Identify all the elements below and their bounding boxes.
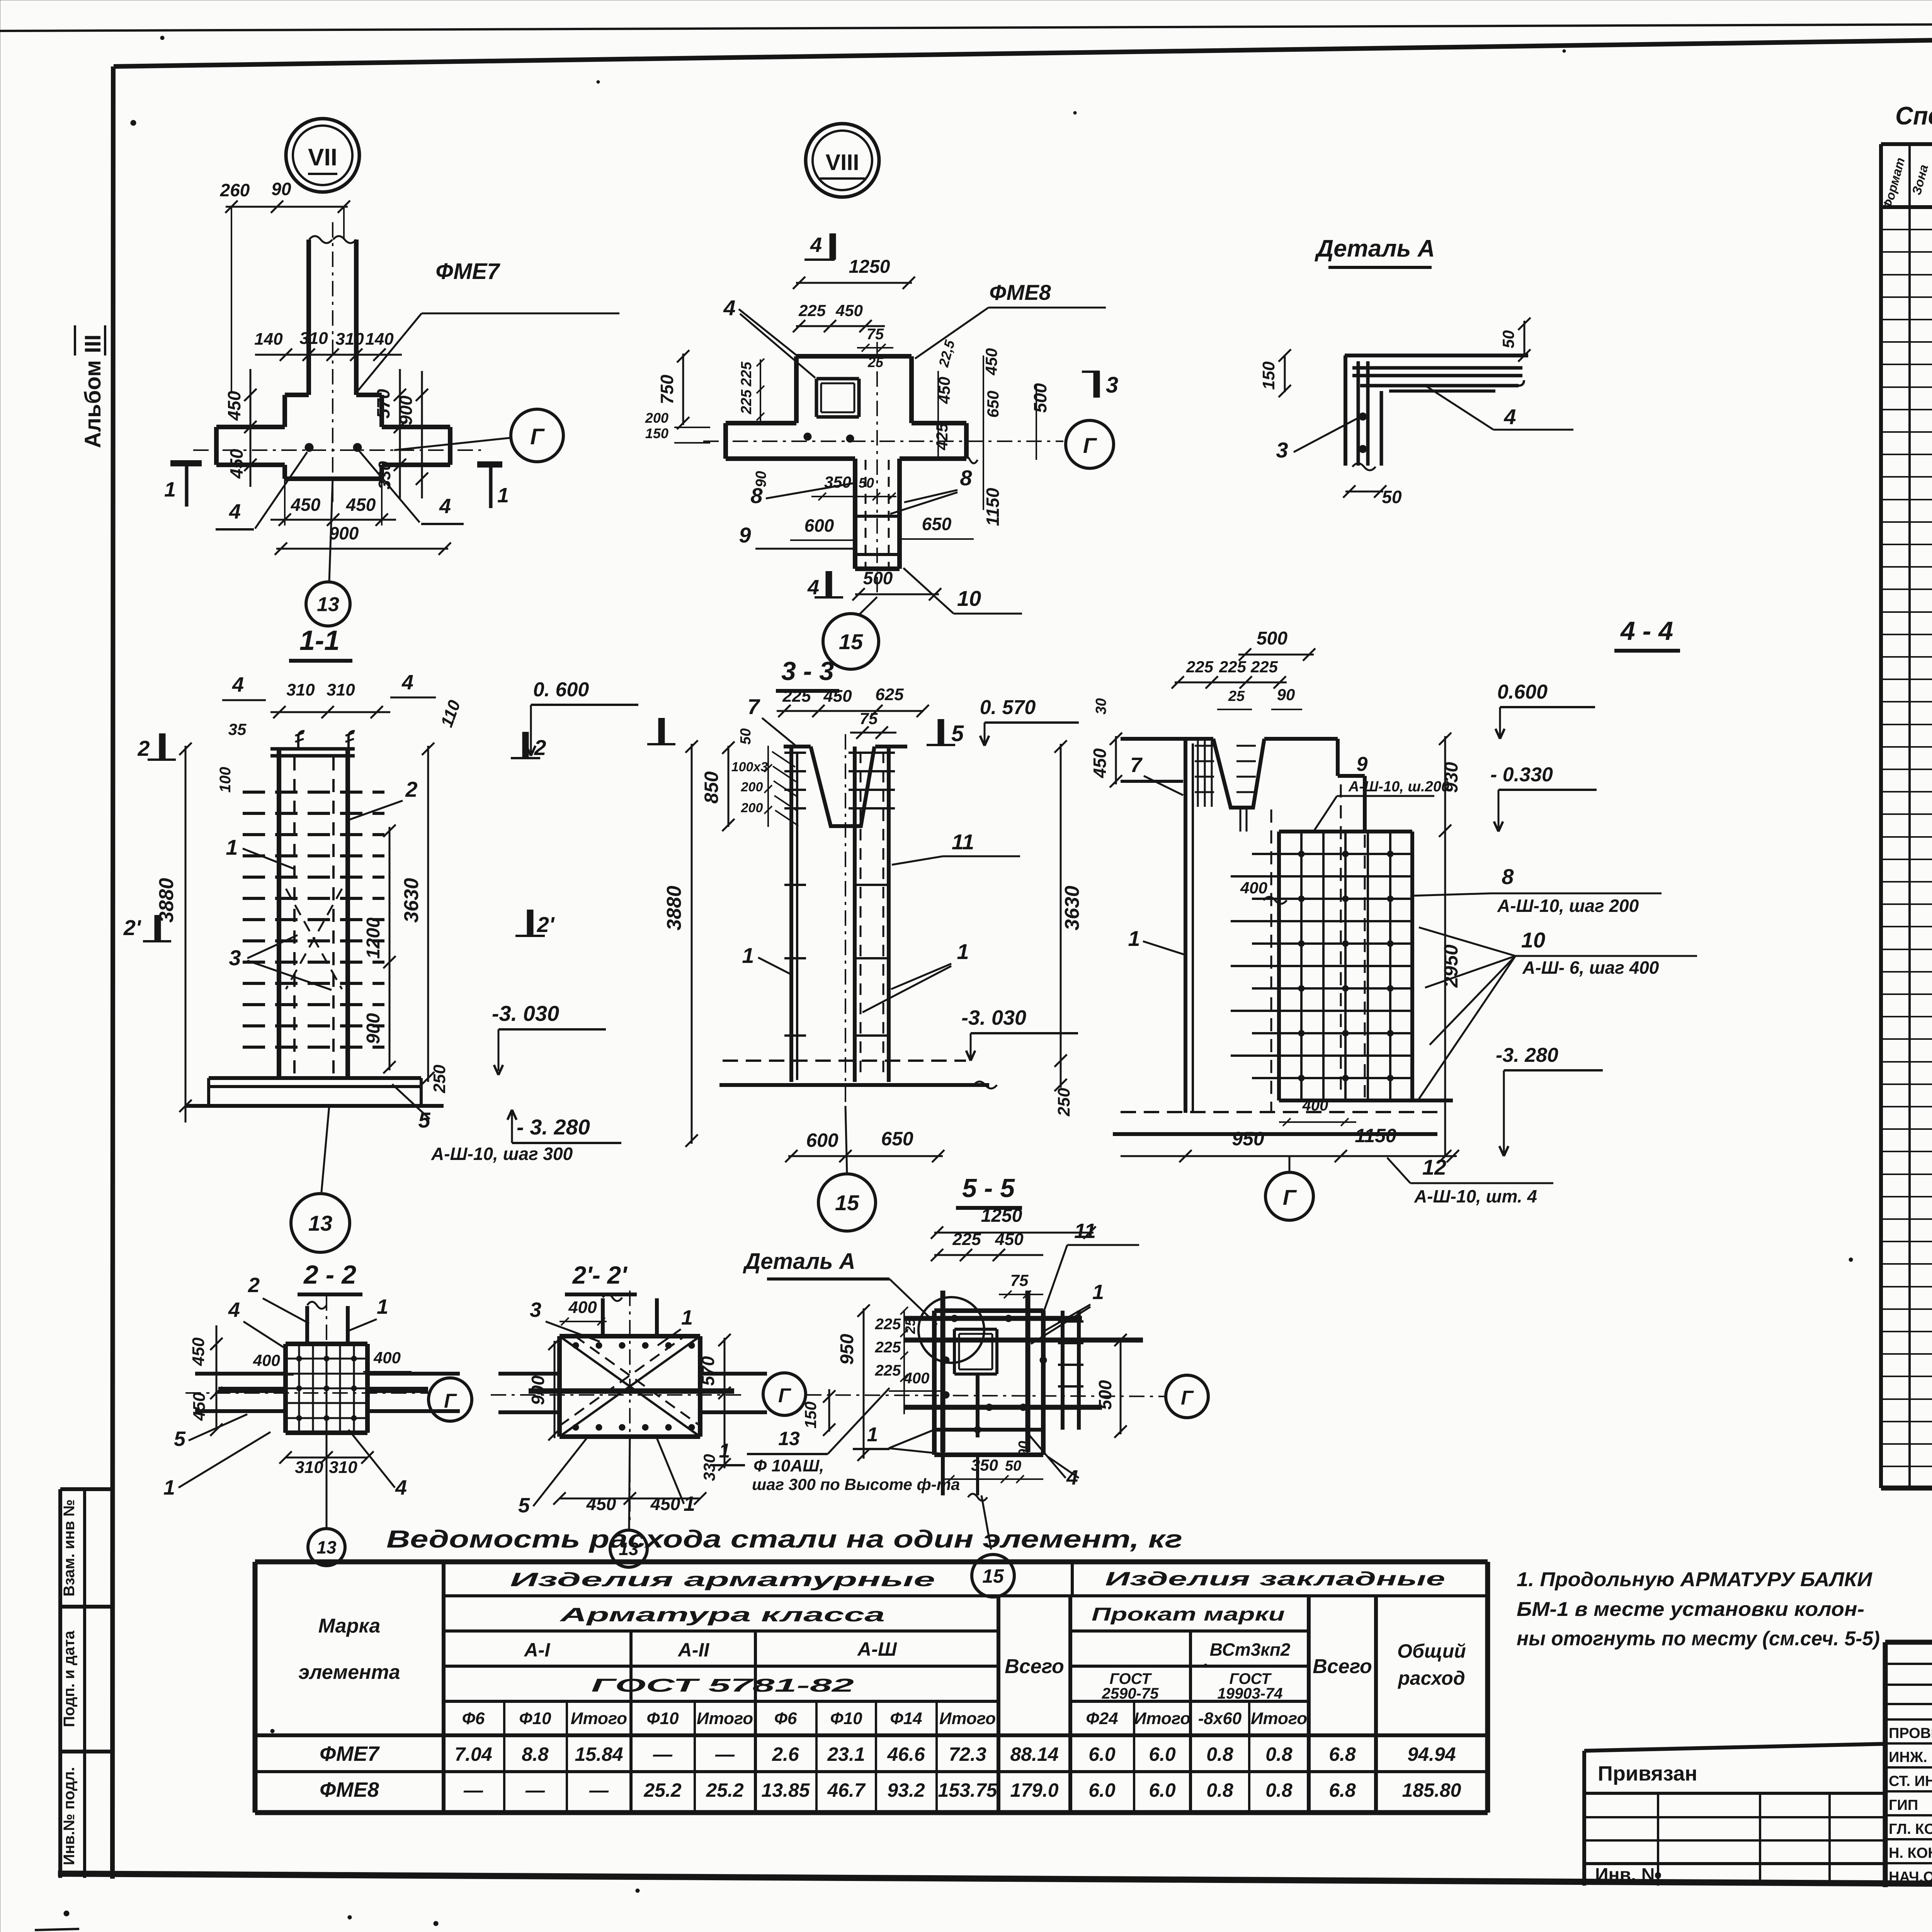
svg-text:1250: 1250 [981, 1206, 1022, 1226]
svg-text:75: 75 [867, 326, 884, 343]
svg-text:400: 400 [1302, 1097, 1328, 1114]
svg-text:0.8: 0.8 [1265, 1779, 1293, 1801]
svg-text:0.8: 0.8 [1206, 1743, 1233, 1765]
svg-text:4: 4 [807, 576, 819, 599]
svg-text:Всего: Всего [1313, 1655, 1372, 1678]
svg-text:2: 2 [137, 736, 150, 760]
svg-text:1-1: 1-1 [299, 625, 340, 656]
svg-text:А-Ш-10, шаг 300: А-Ш-10, шаг 300 [431, 1144, 573, 1164]
svg-text:Общий: Общий [1397, 1640, 1466, 1662]
svg-text:Ф10: Ф10 [519, 1709, 551, 1728]
svg-text:140: 140 [254, 330, 283, 349]
svg-text:—: — [525, 1779, 545, 1801]
svg-text:150: 150 [1259, 361, 1278, 390]
svg-text:1: 1 [226, 835, 238, 859]
svg-text:450: 450 [586, 1494, 616, 1514]
svg-text:ВСт3кп2: ВСт3кп2 [1210, 1639, 1291, 1660]
svg-text:1: 1 [1092, 1281, 1104, 1304]
svg-text:1250: 1250 [849, 257, 890, 277]
svg-text:6.0: 6.0 [1149, 1743, 1176, 1765]
svg-text:25: 25 [867, 354, 884, 370]
svg-text:Итого: Итого [571, 1709, 627, 1728]
svg-text:Спецификация монолитных фун: Спецификация монолитных фундаментов ФМЕ7… [1895, 101, 1932, 130]
svg-text:-3. 030: -3. 030 [961, 1006, 1026, 1029]
svg-text:15: 15 [982, 1565, 1004, 1587]
svg-text:1150: 1150 [1355, 1125, 1396, 1146]
svg-text:7: 7 [1130, 753, 1143, 777]
svg-text:- 3. 280: - 3. 280 [517, 1115, 590, 1139]
svg-text:150: 150 [645, 425, 668, 441]
svg-text:3630: 3630 [1061, 886, 1083, 930]
svg-text:450: 450 [650, 1494, 680, 1514]
svg-text:260: 260 [220, 180, 250, 200]
svg-text:2590-75: 2590-75 [1102, 1685, 1159, 1702]
svg-text:2.6: 2.6 [772, 1743, 799, 1765]
svg-text:ГОСТ 5781-82: ГОСТ 5781-82 [591, 1675, 854, 1696]
svg-text:8: 8 [750, 483, 763, 508]
svg-text:650: 650 [881, 1128, 913, 1150]
svg-text:570: 570 [698, 1356, 718, 1386]
svg-text:1: 1 [497, 484, 509, 507]
svg-text:500: 500 [863, 568, 893, 588]
svg-text:950: 950 [1232, 1128, 1264, 1150]
svg-text:250: 250 [430, 1065, 449, 1094]
svg-text:5 - 5: 5 - 5 [962, 1173, 1015, 1203]
svg-text:6.0: 6.0 [1149, 1779, 1176, 1801]
svg-text:950: 950 [837, 1334, 857, 1365]
svg-text:30: 30 [1093, 698, 1109, 714]
svg-text:13: 13 [308, 1211, 332, 1235]
svg-text:400: 400 [568, 1298, 597, 1317]
svg-text:Подп. и дата: Подп. и дата [61, 1630, 78, 1727]
svg-text:25: 25 [1228, 688, 1245, 704]
svg-text:650: 650 [922, 514, 952, 534]
svg-text:6.0: 6.0 [1088, 1779, 1116, 1801]
svg-text:88.14: 88.14 [1010, 1743, 1058, 1765]
svg-text:ИНЖ.: ИНЖ. [1889, 1749, 1927, 1765]
svg-text:450: 450 [982, 348, 1000, 376]
svg-text:4: 4 [1503, 405, 1516, 429]
svg-text:4 - 4: 4 - 4 [1620, 616, 1673, 646]
svg-text:90: 90 [271, 179, 291, 199]
svg-text:Итого: Итого [1134, 1709, 1190, 1728]
svg-text:650: 650 [984, 391, 1002, 418]
svg-text:0. 570: 0. 570 [980, 696, 1036, 719]
svg-text:А-Ш-10, шт. 4: А-Ш-10, шт. 4 [1414, 1186, 1537, 1206]
svg-text:225: 225 [875, 1316, 901, 1333]
svg-text:50: 50 [1499, 330, 1517, 349]
svg-text:Н. КОНТР.: Н. КОНТР. [1889, 1845, 1932, 1861]
svg-text:625: 625 [875, 685, 904, 704]
svg-text:450: 450 [995, 1230, 1024, 1249]
svg-text:1: 1 [684, 1492, 695, 1515]
svg-text:СТ. ИНЖ.: СТ. ИНЖ. [1889, 1773, 1932, 1789]
svg-text:1200: 1200 [363, 917, 384, 959]
svg-text:8: 8 [960, 466, 972, 490]
svg-text:Ф14: Ф14 [890, 1709, 922, 1728]
svg-text:Ф 10АШ,: Ф 10АШ, [753, 1456, 824, 1475]
svg-text:425: 425 [933, 423, 951, 451]
svg-text:-8х60: -8х60 [1198, 1709, 1242, 1728]
svg-text:179.0: 179.0 [1010, 1779, 1058, 1801]
svg-text:5: 5 [174, 1427, 186, 1451]
svg-text:225: 225 [738, 389, 755, 414]
svg-text:9: 9 [739, 523, 751, 547]
svg-text:9: 9 [1357, 753, 1368, 776]
svg-text:4: 4 [723, 296, 735, 320]
svg-text:-3. 280: -3. 280 [1496, 1044, 1558, 1066]
svg-text:А-II: А-II [677, 1639, 710, 1661]
svg-text:2: 2 [248, 1274, 260, 1297]
svg-text:3: 3 [1106, 372, 1118, 398]
svg-text:200: 200 [741, 780, 763, 794]
svg-text:1: 1 [957, 939, 969, 964]
svg-text:310: 310 [335, 330, 364, 349]
svg-text:0. 600: 0. 600 [533, 679, 589, 701]
svg-text:310: 310 [299, 329, 328, 348]
svg-text:-3. 030: -3. 030 [492, 1001, 559, 1026]
svg-text:ны отогнуть по месту (см.се: ны отогнуть по месту (см.сеч. 5-5) [1517, 1628, 1880, 1650]
svg-text:6.8: 6.8 [1329, 1743, 1356, 1765]
svg-text:12: 12 [1422, 1155, 1446, 1179]
svg-text:VII: VII [308, 144, 337, 171]
svg-text:225: 225 [1250, 658, 1278, 676]
svg-text:Ведомость расхода стали на: Ведомость расхода стали на один элемент,… [386, 1525, 1182, 1553]
svg-text:350: 350 [971, 1456, 998, 1474]
svg-text:1150: 1150 [983, 488, 1003, 526]
svg-text:Ф24: Ф24 [1086, 1709, 1118, 1728]
svg-text:Итого: Итого [697, 1709, 753, 1728]
svg-text:7: 7 [747, 694, 760, 719]
svg-text:3880: 3880 [663, 886, 685, 930]
svg-text:900: 900 [329, 523, 359, 543]
svg-text:2'- 2': 2'- 2' [572, 1261, 628, 1289]
svg-text:570: 570 [373, 389, 393, 418]
svg-text:25.2: 25.2 [706, 1779, 744, 1801]
svg-text:2: 2 [405, 777, 417, 801]
svg-text:Привязан: Привязан [1598, 1762, 1697, 1785]
svg-text:III: III [80, 335, 105, 353]
svg-text:450: 450 [190, 1392, 209, 1421]
svg-text:А-I: А-I [524, 1639, 551, 1661]
svg-text:Деталь А: Деталь А [1314, 235, 1435, 262]
svg-text:330: 330 [700, 1454, 718, 1481]
svg-text:310: 310 [295, 1458, 323, 1477]
svg-text:50: 50 [1382, 487, 1402, 507]
svg-text:400: 400 [373, 1349, 401, 1367]
svg-text:23.1: 23.1 [827, 1743, 865, 1765]
svg-text:Г: Г [444, 1390, 457, 1412]
svg-text:5: 5 [518, 1494, 530, 1517]
svg-text:2': 2' [537, 912, 555, 937]
svg-text:90: 90 [1277, 685, 1295, 704]
svg-text:450: 450 [1090, 748, 1110, 778]
svg-text:Альбом: Альбом [80, 360, 105, 448]
svg-text:4: 4 [229, 500, 241, 523]
svg-text:—: — [715, 1743, 735, 1765]
svg-text:11: 11 [1074, 1219, 1096, 1243]
svg-text:Г: Г [1283, 1185, 1297, 1209]
svg-text:1: 1 [867, 1423, 878, 1446]
svg-text:225: 225 [875, 1339, 901, 1356]
svg-text:ФМЕ7: ФМЕ7 [435, 259, 500, 284]
svg-text:1: 1 [1128, 926, 1140, 951]
svg-text:330: 330 [375, 461, 394, 490]
svg-text:153.75: 153.75 [938, 1779, 998, 1801]
svg-text:35: 35 [228, 720, 247, 738]
svg-text:Марка: Марка [318, 1615, 381, 1637]
svg-text:450: 450 [226, 449, 247, 479]
svg-text:225: 225 [875, 1362, 901, 1379]
svg-text:46.6: 46.6 [887, 1743, 925, 1765]
svg-text:450: 450 [346, 495, 376, 515]
svg-text:Г: Г [1181, 1387, 1194, 1409]
svg-text:400: 400 [903, 1370, 930, 1387]
svg-text:Итого: Итого [1251, 1709, 1307, 1728]
svg-text:11: 11 [952, 830, 974, 854]
svg-text:Взам. инв №: Взам. инв № [61, 1499, 78, 1596]
svg-text:225: 225 [782, 687, 811, 706]
svg-text:3: 3 [530, 1298, 541, 1321]
svg-text:75: 75 [860, 709, 878, 728]
svg-text:шаг 300 по Высоте ф-та: шаг 300 по Высоте ф-та [752, 1475, 960, 1493]
svg-text:7.04: 7.04 [454, 1743, 492, 1765]
svg-text:19903-74: 19903-74 [1217, 1685, 1282, 1702]
svg-text:250: 250 [1054, 1088, 1073, 1117]
svg-text:500: 500 [1095, 1380, 1115, 1410]
svg-text:Ф10: Ф10 [646, 1709, 679, 1728]
svg-text:0.8: 0.8 [1206, 1779, 1233, 1801]
svg-text:15: 15 [835, 1190, 859, 1215]
svg-text:75: 75 [1010, 1271, 1029, 1289]
svg-text:1: 1 [719, 1440, 730, 1462]
svg-text:25.2: 25.2 [643, 1779, 682, 1801]
svg-text:ГЛ. КОНСТ: ГЛ. КОНСТ [1889, 1821, 1932, 1837]
svg-text:900: 900 [396, 395, 416, 425]
svg-text:225: 225 [738, 361, 755, 386]
svg-text:500: 500 [1030, 383, 1050, 413]
svg-text:140: 140 [365, 330, 394, 349]
svg-text:- 0.330: - 0.330 [1490, 764, 1553, 786]
svg-text:5: 5 [951, 721, 964, 746]
svg-text:185.80: 185.80 [1402, 1779, 1461, 1801]
svg-text:6.0: 6.0 [1088, 1743, 1116, 1765]
svg-text:15.84: 15.84 [575, 1743, 623, 1765]
svg-text:ПРОВЕР.: ПРОВЕР. [1889, 1725, 1932, 1742]
svg-text:ФМЕ8: ФМЕ8 [320, 1778, 379, 1801]
svg-text:450: 450 [189, 1337, 208, 1366]
svg-text:8: 8 [1502, 864, 1514, 889]
svg-text:Всего: Всего [1005, 1655, 1064, 1678]
svg-text:93.2: 93.2 [887, 1779, 925, 1801]
svg-text:Деталь А: Деталь А [742, 1249, 855, 1274]
svg-text:1: 1 [681, 1306, 693, 1329]
svg-text:13.85: 13.85 [761, 1779, 810, 1801]
svg-text:25: 25 [902, 1318, 918, 1334]
svg-text:13: 13 [317, 594, 339, 616]
svg-text:50: 50 [1005, 1458, 1021, 1474]
svg-text:0.8: 0.8 [1265, 1743, 1293, 1765]
svg-text:А-Ш-10, шаг 200: А-Ш-10, шаг 200 [1497, 896, 1639, 916]
svg-text:4: 4 [401, 671, 413, 694]
svg-text:Итого: Итого [939, 1709, 996, 1728]
svg-text:4: 4 [439, 495, 451, 518]
svg-text:6.8: 6.8 [1329, 1779, 1356, 1801]
svg-text:3 - 3: 3 - 3 [781, 656, 834, 686]
svg-text:8.8: 8.8 [522, 1743, 549, 1765]
svg-text:Инв.№ подл.: Инв.№ подл. [61, 1767, 78, 1865]
svg-text:3: 3 [1276, 438, 1288, 462]
svg-text:Изделия закладные: Изделия закладные [1105, 1568, 1445, 1590]
svg-text:310: 310 [329, 1458, 357, 1477]
svg-text:Изделия арматурные: Изделия арматурные [510, 1569, 935, 1590]
svg-text:Г: Г [1083, 433, 1097, 457]
svg-text:—: — [589, 1779, 609, 1801]
svg-text:10: 10 [957, 586, 981, 611]
svg-text:Г: Г [778, 1384, 791, 1407]
svg-text:46.7: 46.7 [827, 1779, 866, 1801]
svg-text:А-Ш-10, ш.200: А-Ш-10, ш.200 [1348, 779, 1449, 795]
svg-text:Ф6: Ф6 [774, 1709, 797, 1728]
svg-text:1: 1 [164, 478, 176, 501]
svg-text:94.94: 94.94 [1407, 1743, 1456, 1765]
svg-text:БМ-1 в месте установки ко: БМ-1 в месте установки колон- [1517, 1598, 1864, 1621]
svg-text:3: 3 [229, 946, 241, 970]
svg-text:Г: Г [530, 424, 545, 449]
svg-text:900: 900 [528, 1375, 548, 1405]
svg-text:расход: расход [1397, 1667, 1465, 1689]
svg-text:310: 310 [286, 680, 315, 699]
svg-text:200: 200 [741, 801, 763, 815]
svg-text:750: 750 [657, 374, 677, 404]
svg-text:5: 5 [418, 1108, 430, 1132]
svg-text:13: 13 [778, 1428, 800, 1449]
svg-text:3880: 3880 [155, 878, 178, 923]
svg-text:Ф6: Ф6 [462, 1709, 485, 1728]
svg-text:13: 13 [316, 1537, 337, 1558]
svg-text:90: 90 [1016, 1441, 1032, 1457]
svg-text:50: 50 [738, 728, 754, 745]
svg-text:4: 4 [810, 233, 822, 257]
svg-text:Арматура класса: Арматура класса [559, 1604, 885, 1626]
svg-text:ФМЕ7: ФМЕ7 [320, 1742, 380, 1765]
svg-text:А-Ш: А-Ш [857, 1638, 897, 1660]
svg-text:600: 600 [804, 515, 834, 536]
svg-text:450: 450 [835, 301, 863, 320]
svg-text:Ф10: Ф10 [830, 1709, 862, 1728]
svg-text:2': 2' [123, 915, 141, 940]
svg-text:2950: 2950 [1440, 944, 1462, 988]
svg-text:100: 100 [217, 767, 234, 793]
svg-text:1: 1 [377, 1295, 388, 1318]
svg-text:900: 900 [363, 1013, 384, 1044]
svg-text:4: 4 [228, 1298, 240, 1321]
svg-text:Прокат марки: Прокат марки [1092, 1604, 1285, 1625]
svg-text:3630: 3630 [400, 878, 423, 923]
svg-text:—: — [463, 1779, 483, 1801]
svg-text:4: 4 [395, 1476, 407, 1499]
svg-text:225: 225 [1219, 658, 1247, 676]
svg-text:450: 450 [823, 687, 852, 706]
svg-text:2 - 2: 2 - 2 [303, 1260, 356, 1289]
svg-text:А-Ш- 6, шаг 400: А-Ш- 6, шаг 400 [1522, 957, 1659, 978]
svg-text:310: 310 [327, 680, 355, 699]
svg-text:225: 225 [952, 1230, 981, 1249]
svg-text:400: 400 [253, 1351, 280, 1369]
svg-text:15: 15 [839, 629, 863, 654]
svg-text:450: 450 [291, 495, 321, 515]
svg-text:2: 2 [534, 735, 546, 760]
svg-text:400: 400 [1240, 879, 1267, 897]
svg-text:72.3: 72.3 [949, 1743, 986, 1765]
svg-text:500: 500 [1257, 628, 1287, 649]
svg-text:100х3: 100х3 [731, 760, 768, 774]
svg-text:930: 930 [1441, 762, 1462, 793]
svg-text:VIII: VIII [825, 150, 859, 175]
svg-text:50: 50 [859, 475, 874, 491]
svg-text:—: — [653, 1743, 673, 1765]
svg-text:ГИП: ГИП [1889, 1797, 1918, 1813]
svg-text:1: 1 [742, 943, 754, 968]
svg-text:600: 600 [806, 1129, 838, 1151]
svg-text:ФМЕ8: ФМЕ8 [989, 280, 1051, 304]
svg-text:10: 10 [1521, 928, 1545, 952]
svg-text:0.600: 0.600 [1497, 681, 1548, 703]
svg-text:4: 4 [232, 673, 244, 696]
svg-text:450: 450 [224, 391, 244, 421]
svg-text:225: 225 [1186, 658, 1214, 676]
svg-text:200: 200 [645, 410, 668, 426]
svg-text:850: 850 [701, 771, 722, 804]
svg-text:1: 1 [163, 1476, 175, 1499]
svg-text:1. Продольную АРМАТУРУ БАЛК: 1. Продольную АРМАТУРУ БАЛКИ [1517, 1568, 1873, 1591]
svg-text:225: 225 [798, 301, 826, 320]
svg-text:элемента: элемента [298, 1661, 400, 1684]
